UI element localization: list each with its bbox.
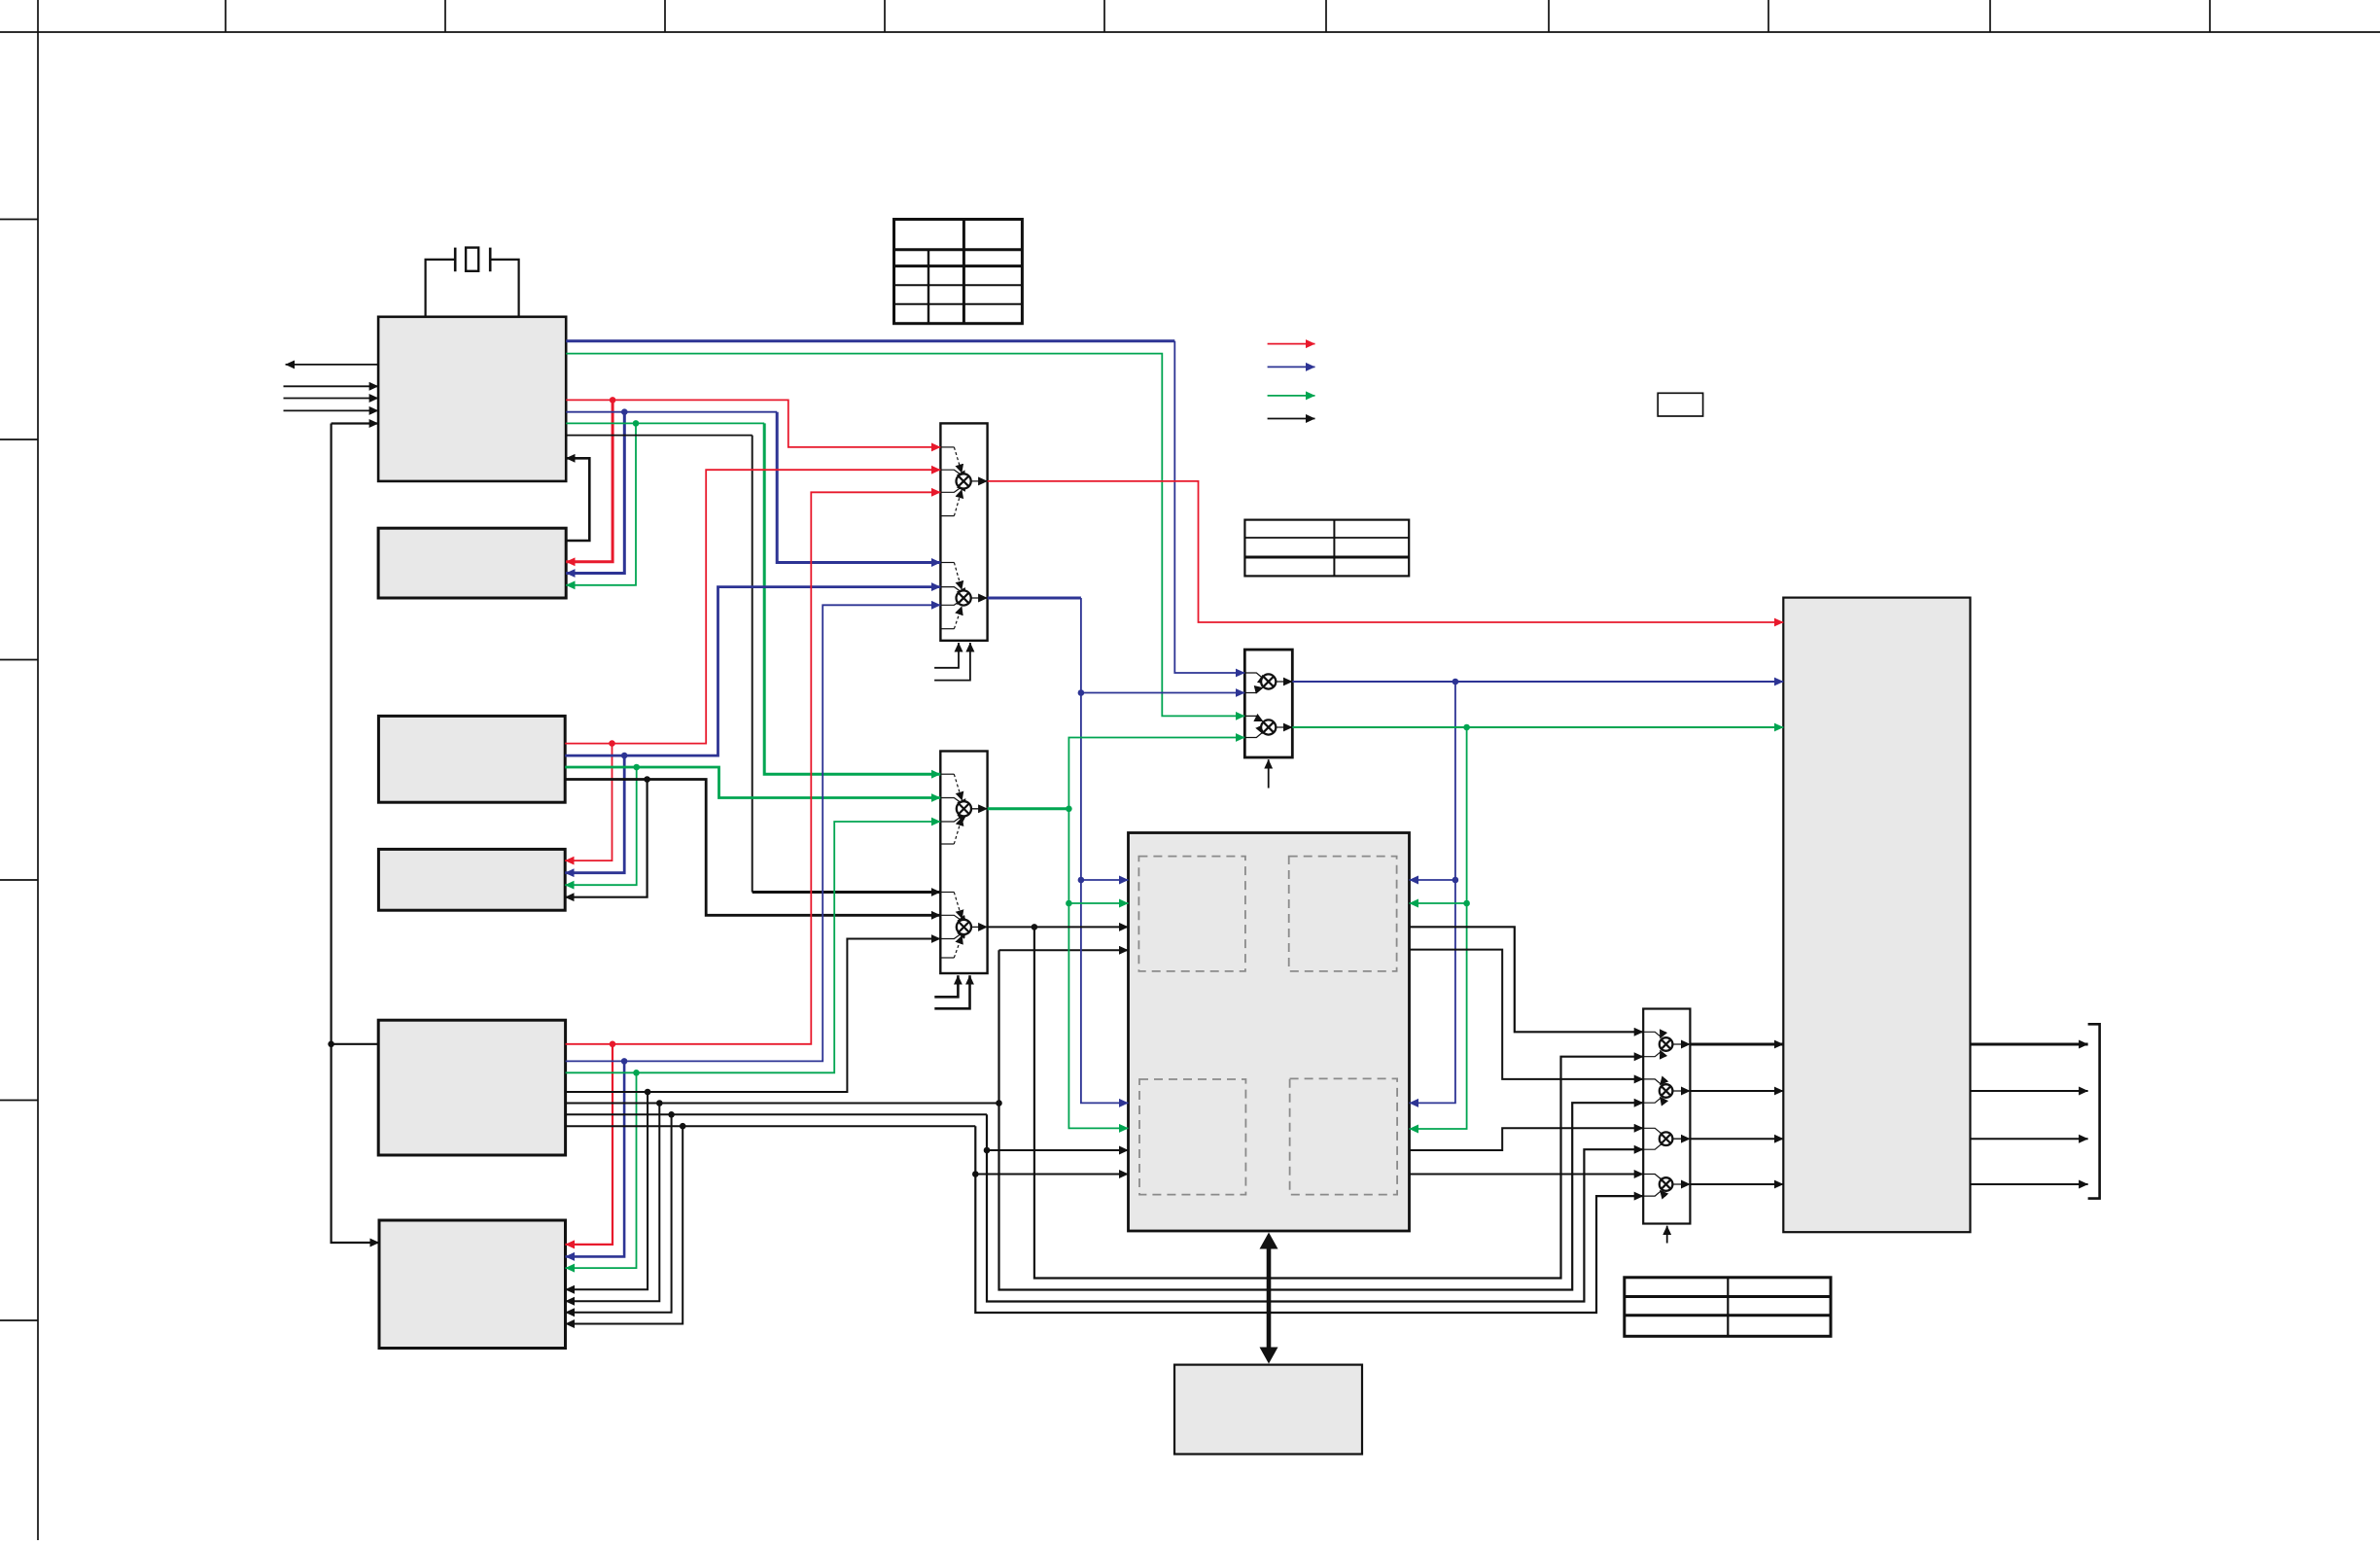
wire U11 out1 to U12 xyxy=(1690,1043,1783,1046)
block U6 xyxy=(379,1220,566,1349)
wire U5 black4 out xyxy=(566,1125,976,1127)
output bracket xyxy=(2088,1024,2100,1198)
wire U9 green to U10 right upper xyxy=(1410,902,1467,904)
wire U5 blue to U7 in6 xyxy=(566,605,941,1061)
block U2 xyxy=(378,528,566,598)
wire U8 green to U10 upper xyxy=(1068,902,1128,904)
block U4 xyxy=(378,849,565,910)
wire net4 bus to U11 in8 xyxy=(975,1126,1643,1313)
wire feedback bus to U5 xyxy=(332,1043,379,1045)
wire U1 green2 out xyxy=(566,422,764,424)
wire U1 in1 xyxy=(284,385,379,387)
junction U7 blue a xyxy=(1078,689,1085,696)
junction U1 green2 xyxy=(633,420,640,427)
legend arrow black xyxy=(1268,418,1315,420)
wire U7 blue riser to U10 lower xyxy=(1081,598,1129,1103)
wire U7 blue out xyxy=(988,597,1081,600)
wire U1 blue to U9 in1 xyxy=(1174,341,1244,673)
wire U7 blue to U9 in2 xyxy=(1081,692,1244,694)
wire U8 black out to U10 xyxy=(988,926,1129,928)
wire U11 out2 to U12 xyxy=(1690,1090,1783,1092)
wire U11 clock stub xyxy=(1666,1226,1668,1244)
wire U8 green to U9 in4 xyxy=(1068,738,1244,809)
wire net3 bus to U11 in6 xyxy=(987,1114,1643,1301)
wire U3 red to U4 xyxy=(565,744,612,861)
wire U1 green2 to U8 in1 xyxy=(764,423,940,774)
junction U5 black3 xyxy=(668,1111,675,1118)
wire U12 out1 xyxy=(1971,1043,2088,1046)
wire U1 out-left xyxy=(286,364,379,366)
legend arrow green xyxy=(1268,395,1315,397)
wire U3 black to U8 in5 xyxy=(565,780,940,916)
junction U5 green xyxy=(633,1070,640,1076)
junction U5 black1 xyxy=(645,1089,651,1096)
wire net4 to U10 in xyxy=(975,1174,1128,1176)
wire U3 red to U7 in2 xyxy=(565,470,940,743)
wire U1 in4 from feedback bus xyxy=(332,422,379,424)
junction U1 blue2 xyxy=(621,408,628,415)
wire U8 clock stub 1 xyxy=(934,975,958,997)
wire U7 clock stub 1 xyxy=(934,643,959,668)
wire U5 black3 out xyxy=(566,1113,987,1115)
wire U8 clock stub 2 xyxy=(934,975,969,1008)
wire U5 black2 out xyxy=(566,1103,999,1105)
dashed sub-block H4 xyxy=(1290,1078,1398,1194)
wire U1 blue bus out xyxy=(566,339,1174,342)
wire U11 out4 to U12 xyxy=(1690,1183,1783,1185)
junction U3 black xyxy=(644,776,650,783)
wire U1 blue2 to U2 xyxy=(566,412,624,574)
wire U7 blue to U10 upper xyxy=(1081,879,1129,881)
wire U9 green riser to U10 right lower xyxy=(1410,727,1467,1129)
wire U5 black2 to U6 xyxy=(566,1104,660,1302)
wire U1 black out xyxy=(566,435,752,437)
wire U5 green to U6 xyxy=(566,1072,637,1268)
junction U3 blue xyxy=(621,753,628,759)
wire U1 green to U9 in3 xyxy=(566,354,1244,717)
mixer U9b (green) xyxy=(1244,716,1262,737)
wire U1 blue2 to U7 in4 xyxy=(777,412,940,563)
mixer U7b (blue) xyxy=(940,563,962,629)
block U10 DSP xyxy=(1129,833,1410,1232)
table T2 xyxy=(1244,520,1409,577)
block U5 xyxy=(378,1020,565,1155)
block U13 xyxy=(1174,1365,1362,1455)
legend arrow red xyxy=(1268,343,1315,345)
wire U5 black1 to U8 in6 xyxy=(566,939,941,1093)
junction U3 green xyxy=(633,764,640,771)
wire U5 green to U8 in3 xyxy=(566,822,941,1072)
wire U5 blue to U6 xyxy=(566,1061,625,1256)
mixer U7a (red) xyxy=(940,447,962,516)
junction U8 black xyxy=(1032,924,1038,931)
junction U8 green b xyxy=(1066,900,1072,907)
table T3 xyxy=(1625,1278,1831,1337)
block U3 xyxy=(378,716,565,802)
wire U10 out3 to U11 in5 xyxy=(1410,1128,1644,1150)
wire U9 clock stub xyxy=(1268,759,1270,788)
wire U1 black to U8 in4 xyxy=(752,436,753,893)
wire U1 in2 xyxy=(284,398,379,400)
wire U9 blue out to U12 xyxy=(1292,681,1783,683)
wire net2 bus to U11 in4 xyxy=(999,950,1644,1289)
wire U1 green2 to U2 xyxy=(566,423,636,584)
table T1 xyxy=(894,220,1023,324)
mixer U11d xyxy=(1643,1175,1661,1197)
junction U9 blue xyxy=(1452,679,1459,685)
dashed sub-block H2 xyxy=(1289,857,1397,971)
junction U3 red xyxy=(609,740,615,747)
wire U3 green to U8 in2 xyxy=(565,767,940,798)
wire U5 black4 to U6 xyxy=(566,1126,683,1323)
block U7 mux/mixer 1 xyxy=(940,423,987,640)
block U9 mixer pair xyxy=(1244,650,1292,757)
wire U12 out4 xyxy=(1971,1183,2088,1185)
wire U3 black to U4 xyxy=(565,780,647,897)
junction U5 blue xyxy=(621,1058,628,1065)
wire U10 out4 to U11 in7 xyxy=(1410,1174,1644,1176)
mixer U11c xyxy=(1643,1128,1661,1149)
wire U3 blue to U4 xyxy=(565,755,624,873)
wire U3 blue to U7 in5 xyxy=(565,587,940,756)
wire U1 red to U2 xyxy=(566,400,612,561)
wire U9 blue riser to U10 right lower xyxy=(1410,682,1455,1103)
junction U5 black4 xyxy=(680,1123,686,1130)
wire U10 out1 to U11 in1 xyxy=(1410,927,1644,1032)
mixer U11a xyxy=(1643,1032,1661,1056)
block U11 mixer quad xyxy=(1643,1009,1690,1224)
legend arrow blue xyxy=(1268,366,1315,368)
wire U12 out2 xyxy=(1971,1090,2088,1092)
dashed sub-block H3 xyxy=(1139,1079,1245,1195)
junction net3 xyxy=(984,1147,991,1154)
wire U10 out2 to U11 in3 xyxy=(1410,950,1644,1079)
wire net3 to U10 in xyxy=(987,1149,1129,1151)
block U1 main IC xyxy=(378,317,566,481)
wire U5 red to U7 in3 xyxy=(566,492,941,1044)
junction U7 blue b xyxy=(1078,877,1085,884)
junction U5 red xyxy=(610,1041,616,1048)
mixer U8a (green) xyxy=(940,774,962,844)
wire U8 black bus to U11 in2 xyxy=(1034,927,1643,1278)
bus U10 to U13 double arrow xyxy=(1267,1244,1272,1353)
block U12 output IC xyxy=(1783,598,1970,1233)
wire net2 to U10 in xyxy=(999,949,1129,951)
mixer U11b xyxy=(1643,1079,1661,1103)
wire U7 red out to U12 xyxy=(988,481,1784,622)
wire U5 black1 to U6 xyxy=(566,1092,648,1289)
wire U8 green riser to U10 lower xyxy=(1068,809,1128,1129)
wire U5 black3 to U6 xyxy=(566,1114,672,1313)
wire U9 green out to U12 xyxy=(1292,726,1783,728)
dashed sub-block H1 xyxy=(1138,857,1245,971)
junction U9 blue b xyxy=(1452,877,1459,884)
wire U12 out3 xyxy=(1971,1138,2088,1140)
wire U1 red to U7 in1 xyxy=(566,400,940,447)
junction U5 black2 xyxy=(656,1100,663,1106)
legend box xyxy=(1658,393,1702,416)
wire U1 blue2 out xyxy=(566,411,777,413)
block U8 mux/mixer 2 xyxy=(940,752,987,974)
wire U2 to U1 feedback xyxy=(566,458,589,541)
junction U8 green xyxy=(1066,806,1072,813)
wire U5 red to U6 xyxy=(566,1044,613,1245)
wire U7 clock stub 2 xyxy=(934,643,970,681)
junction feedback bus xyxy=(328,1041,334,1048)
wire U3 green to U4 xyxy=(565,767,637,885)
wire U8 green out xyxy=(988,807,1069,810)
wire U11 out3 to U12 xyxy=(1690,1138,1783,1140)
junction net4 xyxy=(972,1171,979,1177)
wire U1 in3 xyxy=(284,409,379,411)
mixer U8b (black) xyxy=(940,893,962,959)
junction U9 green b xyxy=(1463,900,1470,907)
mixer U9a (blue) xyxy=(1244,673,1262,693)
junction U1 red xyxy=(610,397,616,404)
junction U9 green xyxy=(1463,724,1470,731)
wire U9 blue to U10 right upper xyxy=(1410,879,1455,881)
junction net2 xyxy=(996,1100,1002,1106)
crystal X1 xyxy=(426,248,519,317)
wire feedback bus to U6 xyxy=(332,424,379,1244)
